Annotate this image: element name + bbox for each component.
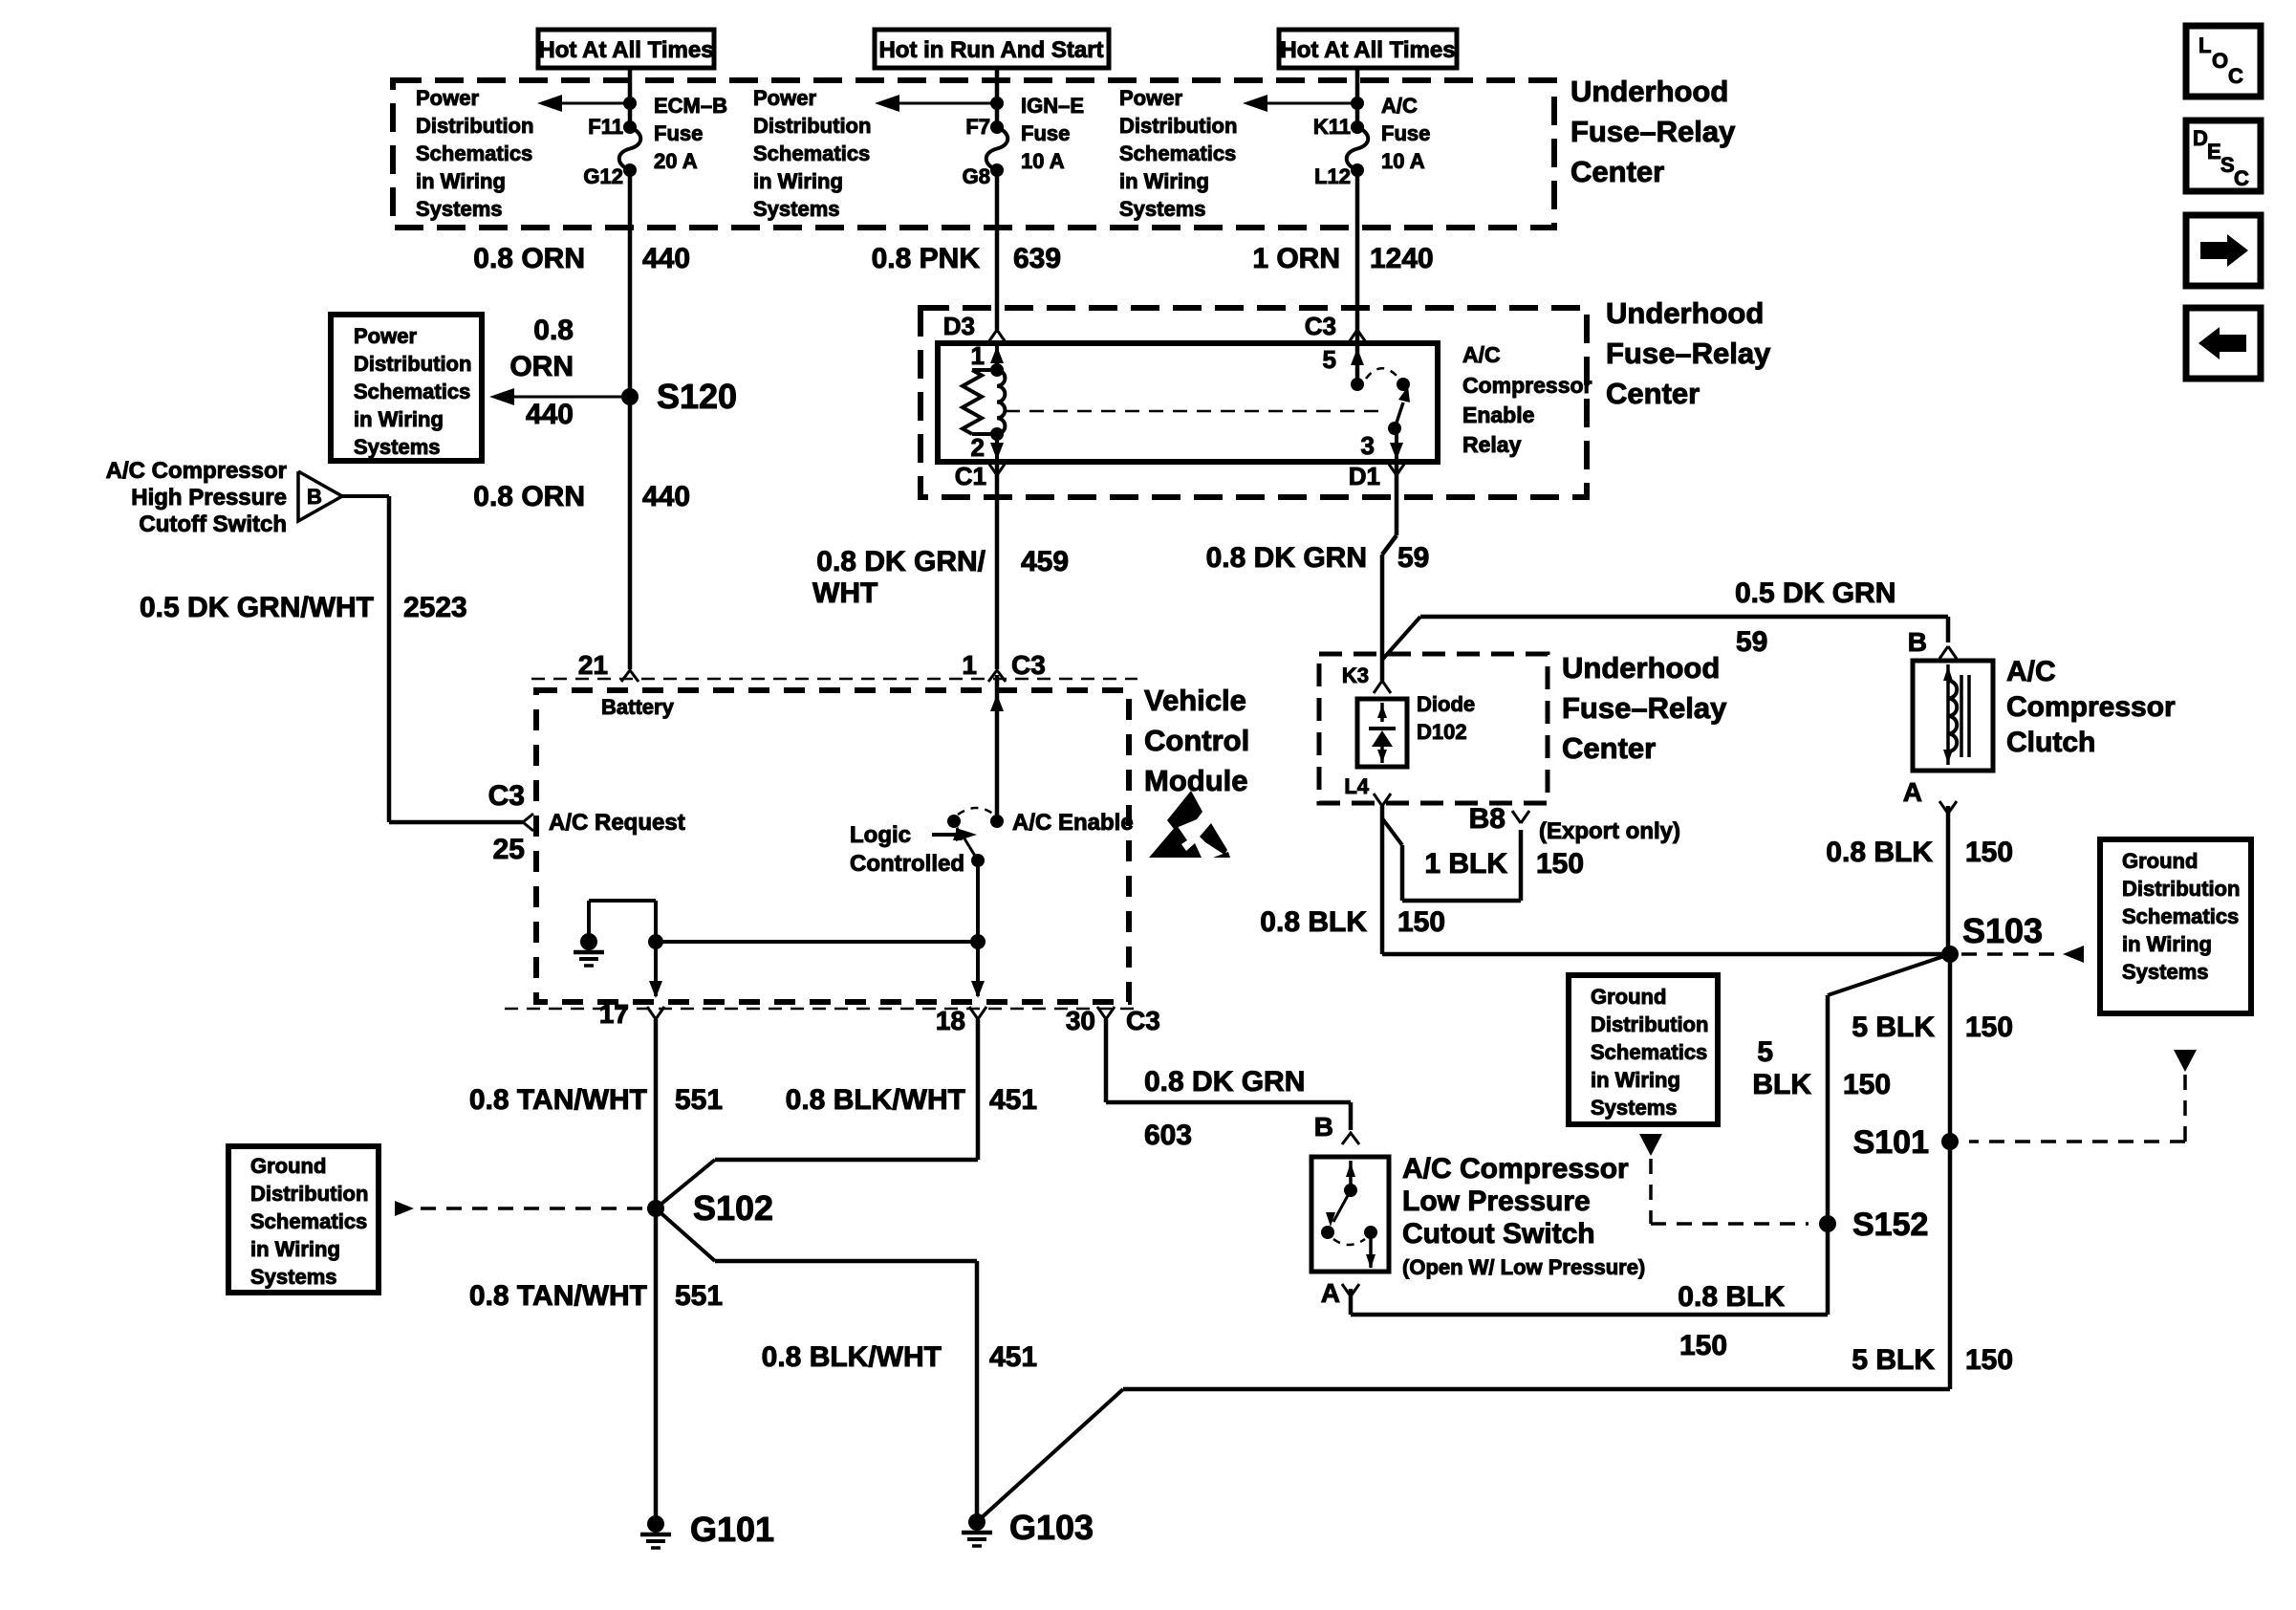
svg-text:Fuse: Fuse: [1381, 121, 1430, 145]
svg-text:0.8 PNK: 0.8 PNK: [872, 243, 981, 274]
svg-text:Distribution: Distribution: [753, 114, 871, 138]
svg-text:551: 551: [675, 1280, 723, 1312]
svg-text:1 ORN: 1 ORN: [1252, 243, 1340, 274]
svg-text:0.8 DK GRN: 0.8 DK GRN: [1206, 542, 1367, 574]
svg-text:18: 18: [936, 1006, 965, 1035]
svg-text:Schematics: Schematics: [250, 1209, 367, 1233]
svg-text:25: 25: [493, 834, 525, 865]
svg-text:Diode: Diode: [1417, 692, 1475, 716]
svg-text:Power: Power: [1119, 86, 1182, 110]
svg-text:3: 3: [1361, 431, 1375, 460]
svg-text:Underhood: Underhood: [1562, 651, 1720, 685]
svg-text:in Wiring: in Wiring: [416, 169, 506, 193]
svg-text:A: A: [1321, 1278, 1340, 1308]
svg-text:Compressor: Compressor: [1462, 373, 1592, 398]
svg-text:0.8 ORN: 0.8 ORN: [473, 481, 585, 512]
svg-text:ECM–B: ECM–B: [654, 94, 727, 118]
svg-text:440: 440: [642, 481, 690, 512]
svg-text:Systems: Systems: [250, 1265, 337, 1289]
svg-text:603: 603: [1144, 1120, 1192, 1151]
svg-text:Cutoff Switch: Cutoff Switch: [139, 511, 287, 537]
svg-text:150: 150: [1965, 837, 2013, 868]
svg-text:639: 639: [1013, 243, 1061, 274]
svg-text:Hot At All Times: Hot At All Times: [538, 37, 713, 63]
svg-text:WHT: WHT: [812, 577, 877, 609]
svg-text:Vehicle: Vehicle: [1144, 684, 1246, 717]
svg-text:1240: 1240: [1370, 243, 1434, 274]
svg-text:Distribution: Distribution: [250, 1182, 368, 1206]
svg-text:C3: C3: [1011, 650, 1046, 680]
svg-text:A/C: A/C: [2006, 656, 2056, 687]
svg-text:S152: S152: [1852, 1207, 1928, 1243]
svg-text:A/C Request: A/C Request: [549, 810, 685, 836]
svg-text:Systems: Systems: [1591, 1096, 1678, 1120]
svg-text:Battery: Battery: [601, 695, 675, 719]
svg-text:5: 5: [1757, 1036, 1773, 1068]
svg-text:1 BLK: 1 BLK: [1424, 848, 1507, 880]
svg-text:High Pressure: High Pressure: [131, 485, 287, 511]
svg-text:440: 440: [642, 243, 690, 274]
svg-text:Low Pressure: Low Pressure: [1402, 1186, 1591, 1217]
svg-text:Distribution: Distribution: [354, 352, 471, 376]
svg-text:in Wiring: in Wiring: [1591, 1068, 1680, 1092]
svg-text:G103: G103: [1009, 1508, 1094, 1547]
svg-text:Ground: Ground: [1591, 985, 1666, 1009]
svg-text:Hot At All Times: Hot At All Times: [1280, 37, 1455, 63]
svg-text:L: L: [2199, 33, 2211, 57]
svg-text:17: 17: [599, 999, 629, 1029]
svg-text:Center: Center: [1570, 155, 1664, 188]
svg-text:B: B: [307, 485, 322, 509]
svg-text:F7: F7: [965, 115, 990, 139]
svg-text:0.8 BLK: 0.8 BLK: [1678, 1281, 1785, 1313]
svg-text:A/C Enable: A/C Enable: [1012, 810, 1134, 836]
svg-text:20 A: 20 A: [654, 149, 698, 173]
svg-text:150: 150: [1536, 848, 1584, 880]
svg-text:S120: S120: [657, 377, 737, 416]
svg-text:21: 21: [578, 650, 608, 680]
svg-text:D1: D1: [1349, 462, 1380, 490]
svg-text:Cutout Switch: Cutout Switch: [1402, 1218, 1595, 1250]
svg-text:Fuse–Relay: Fuse–Relay: [1562, 691, 1727, 725]
svg-text:O: O: [2212, 49, 2228, 73]
svg-text:0.5 DK GRN: 0.5 DK GRN: [1735, 577, 1895, 609]
svg-text:Systems: Systems: [416, 197, 503, 221]
svg-text:150: 150: [1965, 1012, 2013, 1043]
svg-text:Control: Control: [1144, 724, 1249, 757]
svg-text:B: B: [1314, 1112, 1333, 1142]
svg-text:(Open W/ Low Pressure): (Open W/ Low Pressure): [1402, 1255, 1645, 1279]
svg-text:2523: 2523: [403, 592, 467, 623]
svg-text:150: 150: [1843, 1069, 1891, 1100]
svg-text:Module: Module: [1144, 764, 1248, 797]
svg-text:BLK: BLK: [1752, 1069, 1811, 1100]
svg-text:5 BLK: 5 BLK: [1852, 1344, 1935, 1376]
svg-text:Power: Power: [416, 86, 479, 110]
svg-text:B8: B8: [1469, 803, 1505, 835]
svg-text:0.8 TAN/WHT: 0.8 TAN/WHT: [469, 1084, 647, 1116]
svg-text:1: 1: [962, 650, 977, 680]
svg-text:Underhood: Underhood: [1606, 296, 1764, 330]
svg-text:C3: C3: [488, 780, 525, 812]
svg-text:K3: K3: [1342, 664, 1369, 687]
svg-text:150: 150: [1679, 1330, 1727, 1361]
svg-text:59: 59: [1397, 542, 1429, 574]
svg-text:(Export only): (Export only): [1539, 818, 1680, 844]
svg-text:551: 551: [675, 1084, 723, 1116]
svg-text:0.8: 0.8: [533, 315, 574, 346]
svg-text:59: 59: [1736, 626, 1767, 658]
svg-text:Schematics: Schematics: [2122, 904, 2239, 928]
svg-text:in Wiring: in Wiring: [753, 169, 843, 193]
svg-text:E: E: [2207, 140, 2221, 163]
svg-text:Center: Center: [1562, 731, 1656, 765]
svg-text:0.8 BLK/WHT: 0.8 BLK/WHT: [786, 1084, 965, 1116]
svg-text:Fuse: Fuse: [654, 121, 703, 145]
svg-text:0.8 DK GRN/: 0.8 DK GRN/: [816, 546, 986, 577]
svg-text:S103: S103: [1962, 911, 2043, 950]
svg-text:ORN: ORN: [509, 351, 574, 382]
svg-text:in Wiring: in Wiring: [354, 407, 444, 431]
svg-text:Power: Power: [354, 324, 417, 348]
svg-text:10 A: 10 A: [1021, 149, 1065, 173]
svg-text:G101: G101: [690, 1510, 774, 1549]
svg-text:Schematics: Schematics: [1119, 141, 1236, 165]
svg-text:Center: Center: [1606, 377, 1700, 410]
svg-text:Fuse: Fuse: [1021, 121, 1070, 145]
svg-text:Systems: Systems: [2122, 960, 2209, 984]
svg-text:5: 5: [1323, 345, 1336, 374]
svg-text:Schematics: Schematics: [1591, 1040, 1707, 1064]
svg-text:Systems: Systems: [1119, 197, 1206, 221]
svg-text:Distribution: Distribution: [1119, 114, 1237, 138]
svg-text:Fuse–Relay: Fuse–Relay: [1570, 115, 1736, 148]
svg-text:Systems: Systems: [354, 435, 441, 459]
svg-text:A/C Compressor: A/C Compressor: [106, 458, 287, 484]
svg-text:0.8 TAN/WHT: 0.8 TAN/WHT: [469, 1280, 647, 1312]
svg-text:C: C: [2234, 166, 2249, 190]
svg-text:K11: K11: [1313, 115, 1351, 139]
svg-text:C1: C1: [955, 462, 986, 490]
svg-text:B: B: [1908, 627, 1927, 657]
svg-text:Controlled: Controlled: [850, 851, 964, 877]
svg-text:C: C: [2228, 64, 2243, 88]
svg-text:in Wiring: in Wiring: [1119, 169, 1209, 193]
svg-text:C3: C3: [1305, 312, 1336, 340]
svg-text:G8: G8: [963, 164, 990, 188]
svg-text:Systems: Systems: [753, 197, 840, 221]
svg-text:Schematics: Schematics: [416, 141, 532, 165]
svg-text:Ground: Ground: [250, 1154, 326, 1178]
svg-text:150: 150: [1397, 906, 1445, 938]
svg-text:0.8 BLK: 0.8 BLK: [1260, 906, 1367, 938]
svg-text:D3: D3: [943, 312, 975, 340]
svg-text:Underhood: Underhood: [1570, 75, 1728, 108]
svg-text:C3: C3: [1126, 1006, 1160, 1035]
svg-text:Compressor: Compressor: [2006, 691, 2176, 723]
svg-text:in Wiring: in Wiring: [2122, 932, 2212, 956]
svg-text:10 A: 10 A: [1381, 149, 1425, 173]
svg-text:Schematics: Schematics: [753, 141, 870, 165]
svg-text:Clutch: Clutch: [2006, 727, 2095, 758]
svg-text:D: D: [2193, 126, 2208, 150]
svg-text:S101: S101: [1853, 1124, 1929, 1161]
svg-text:F11: F11: [588, 115, 623, 139]
svg-text:0.8 BLK/WHT: 0.8 BLK/WHT: [762, 1341, 942, 1373]
svg-text:G12: G12: [583, 164, 623, 188]
svg-text:Relay: Relay: [1462, 432, 1522, 457]
svg-text:Power: Power: [753, 86, 816, 110]
svg-text:Distribution: Distribution: [2122, 877, 2240, 901]
svg-text:5 BLK: 5 BLK: [1852, 1012, 1935, 1043]
svg-text:IGN–E: IGN–E: [1021, 94, 1084, 118]
svg-text:Enable: Enable: [1462, 402, 1534, 427]
svg-text:459: 459: [1021, 546, 1069, 577]
svg-text:Hot in Run And Start: Hot in Run And Start: [878, 37, 1103, 63]
svg-text:0.8 DK GRN: 0.8 DK GRN: [1144, 1066, 1305, 1098]
svg-text:A: A: [1903, 777, 1922, 807]
svg-text:30: 30: [1066, 1006, 1095, 1035]
svg-text:Fuse–Relay: Fuse–Relay: [1606, 337, 1771, 370]
svg-text:D102: D102: [1417, 720, 1467, 744]
svg-text:0.8 BLK: 0.8 BLK: [1826, 837, 1933, 868]
svg-text:Logic: Logic: [850, 822, 911, 848]
svg-text:150: 150: [1965, 1344, 2013, 1376]
svg-text:1: 1: [971, 341, 985, 370]
svg-text:2: 2: [971, 433, 985, 462]
svg-text:L4: L4: [1344, 774, 1369, 798]
svg-text:S: S: [2220, 153, 2235, 177]
svg-text:L12: L12: [1314, 164, 1351, 188]
svg-text:Distribution: Distribution: [1591, 1012, 1708, 1036]
svg-text:Ground: Ground: [2122, 849, 2198, 873]
svg-text:A/C: A/C: [1462, 342, 1501, 367]
svg-text:451: 451: [989, 1341, 1037, 1373]
svg-text:A/C: A/C: [1381, 94, 1418, 118]
svg-text:A/C Compressor: A/C Compressor: [1402, 1153, 1629, 1185]
svg-text:0.8 ORN: 0.8 ORN: [473, 243, 585, 274]
svg-text:451: 451: [989, 1084, 1037, 1116]
svg-text:S102: S102: [693, 1188, 773, 1228]
svg-text:0.5 DK GRN/WHT: 0.5 DK GRN/WHT: [140, 592, 374, 623]
svg-text:in Wiring: in Wiring: [250, 1237, 340, 1261]
svg-text:Schematics: Schematics: [354, 380, 470, 403]
svg-text:Distribution: Distribution: [416, 114, 533, 138]
svg-text:440: 440: [526, 399, 574, 430]
